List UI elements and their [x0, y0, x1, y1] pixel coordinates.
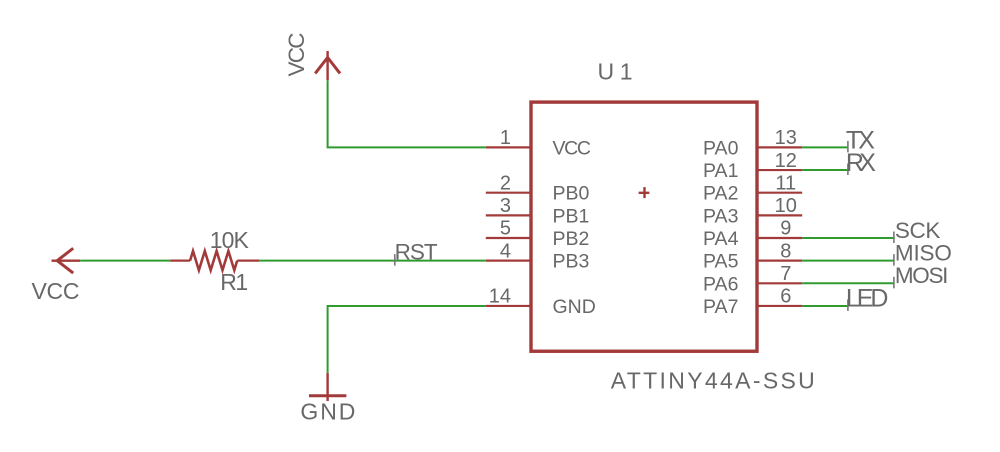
- svg-text:MOSI: MOSI: [895, 263, 949, 288]
- svg-text:VCC: VCC: [553, 137, 592, 159]
- wire VCC net to pin 1: [328, 80, 486, 147]
- label SCK: [894, 218, 941, 243]
- svg-text:PA5: PA5: [703, 251, 739, 273]
- pin 4 PB3: [486, 240, 590, 272]
- svg-text:2: 2: [500, 172, 511, 194]
- svg-text:PA7: PA7: [703, 296, 738, 318]
- pin 2 PB0: [486, 172, 590, 204]
- pin 14 GND: [486, 286, 596, 318]
- label MISO: [894, 240, 952, 265]
- pin 9 PA4: [703, 218, 802, 250]
- svg-text:GND: GND: [553, 296, 596, 318]
- label RX: [846, 149, 876, 177]
- svg-text:PA3: PA3: [703, 205, 738, 227]
- supply symbol VCC top: [284, 33, 340, 81]
- pin 6 PA7: [703, 286, 802, 318]
- svg-text:4: 4: [500, 240, 511, 262]
- IC U1 body box: [531, 102, 757, 351]
- svg-text:10: 10: [775, 195, 797, 217]
- wire SCK net: [802, 237, 894, 239]
- svg-text:PB0: PB0: [553, 183, 590, 205]
- svg-text:PB3: PB3: [553, 251, 590, 273]
- svg-text:10K: 10K: [210, 227, 250, 253]
- svg-text:3: 3: [500, 195, 511, 217]
- supply symbol VCC left: [32, 248, 81, 304]
- pin 11 PA2: [703, 172, 802, 204]
- pin 3 PB1: [486, 195, 590, 227]
- resistor R1 10K: [170, 227, 259, 295]
- svg-text:9: 9: [780, 218, 791, 240]
- pin 10 PA3: [703, 195, 802, 227]
- ground symbol GND: [300, 373, 355, 425]
- refdes label U1: [598, 58, 633, 84]
- svg-text:U1: U1: [598, 58, 633, 84]
- pin 5 PB2: [486, 218, 590, 250]
- pin 7 PA6: [703, 263, 802, 295]
- wire LED net: [802, 305, 848, 307]
- svg-text:13: 13: [775, 127, 797, 149]
- svg-text:PB2: PB2: [553, 228, 590, 250]
- label RST: [395, 239, 438, 265]
- svg-text:ATTINY44A-SSU: ATTINY44A-SSU: [611, 368, 815, 394]
- svg-text:5: 5: [500, 218, 511, 240]
- svg-text:PB1: PB1: [553, 205, 590, 227]
- svg-text:SCK: SCK: [895, 218, 941, 243]
- svg-text:12: 12: [775, 150, 797, 172]
- svg-text:RX: RX: [846, 149, 876, 177]
- svg-text:VCC: VCC: [284, 33, 309, 77]
- svg-text:11: 11: [775, 172, 796, 194]
- svg-text:LED: LED: [846, 285, 889, 313]
- label TX: [846, 126, 875, 154]
- svg-text:RST: RST: [395, 239, 438, 264]
- svg-text:PA0: PA0: [703, 137, 739, 159]
- svg-text:PA4: PA4: [703, 228, 739, 250]
- pin 8 PA5: [703, 240, 802, 272]
- svg-text:MISO: MISO: [895, 240, 952, 265]
- origin cross inside U1: [639, 187, 650, 198]
- wire RX net: [802, 169, 848, 171]
- svg-text:7: 7: [780, 263, 791, 285]
- svg-text:14: 14: [489, 286, 511, 308]
- svg-text:R1: R1: [220, 269, 248, 295]
- svg-text:1: 1: [500, 127, 511, 149]
- wire TX net: [802, 146, 848, 148]
- pin 1 VCC: [486, 127, 591, 159]
- svg-text:PA2: PA2: [703, 183, 738, 205]
- wire MISO net: [802, 260, 894, 262]
- wire MOSI net: [802, 282, 894, 284]
- svg-text:6: 6: [780, 286, 791, 308]
- label LED: [846, 285, 889, 313]
- pin 12 PA1: [703, 150, 802, 182]
- wire VCC left to resistor R1: [80, 260, 170, 262]
- wire RST net to pin 4: [259, 260, 486, 262]
- svg-text:VCC: VCC: [32, 278, 80, 304]
- wire GND net to pin 14: [328, 306, 486, 373]
- svg-text:8: 8: [780, 240, 791, 262]
- svg-text:PA1: PA1: [703, 160, 738, 182]
- svg-text:GND: GND: [300, 398, 355, 424]
- value label ATTINY44A-SSU: [611, 368, 815, 394]
- pin 13 PA0: [703, 127, 802, 159]
- label MOSI: [894, 263, 949, 288]
- svg-text:PA6: PA6: [703, 273, 738, 295]
